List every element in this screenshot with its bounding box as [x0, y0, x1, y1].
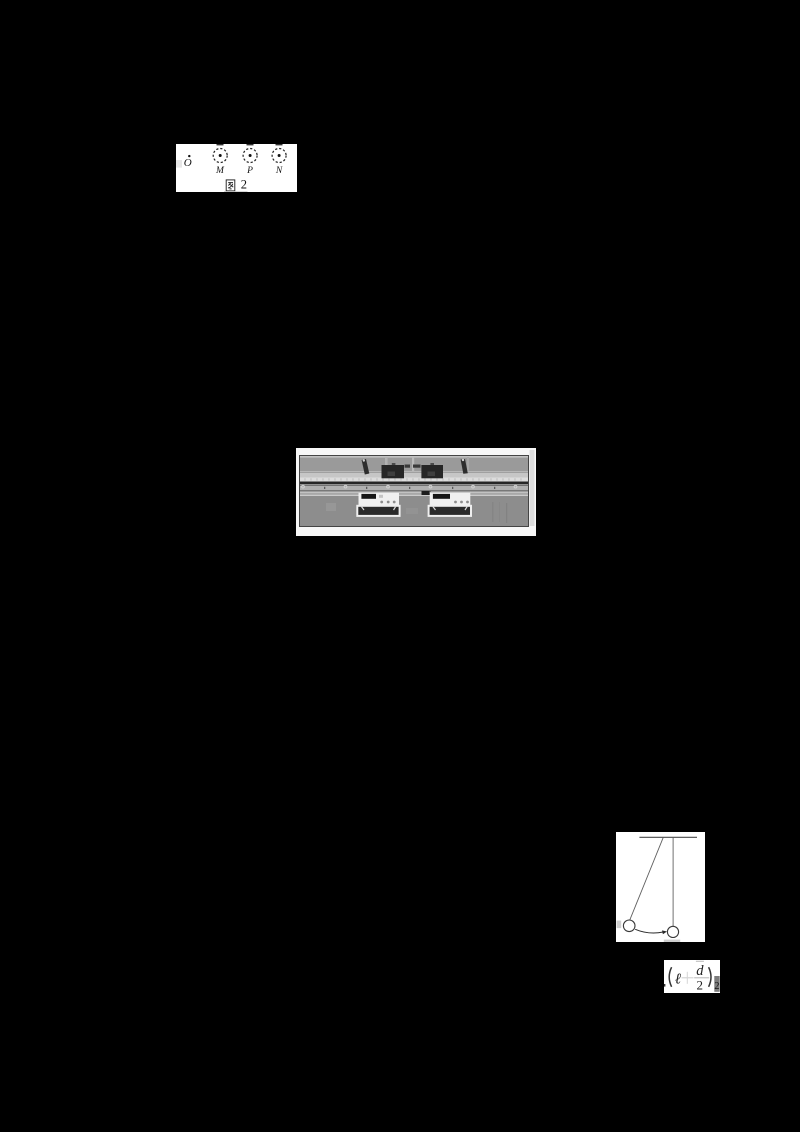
band below stripe: [300, 486, 528, 490]
white frame: [296, 448, 536, 536]
photo: air track with two photogate timers: [296, 448, 536, 536]
timer 1 buttons: [380, 501, 383, 504]
swing arrow: [635, 929, 667, 934]
timer 2 stand: [429, 506, 471, 516]
top edge dash above N: [276, 144, 283, 145]
field-out-of-page symbol N: [272, 149, 286, 163]
pendulum string vertical: [672, 837, 674, 926]
fraction bar: [694, 977, 709, 978]
svg-text:P: P: [246, 166, 253, 176]
cable block between timers: [422, 491, 432, 495]
ceiling line: [639, 836, 697, 838]
glider flag right: [430, 463, 434, 465]
right paren: [709, 967, 711, 987]
wall background: [300, 456, 528, 471]
scale number dashes: [324, 487, 495, 489]
timer 1 stand: [357, 506, 399, 516]
pendulum diagram: [616, 832, 705, 942]
right clamp post: [461, 459, 468, 474]
overbar above d: [696, 961, 704, 962]
formula (l + d/2): [664, 960, 720, 993]
gray block with dark 2: [714, 976, 719, 992]
knobs between flags: [405, 465, 410, 468]
left clamp post: [362, 459, 370, 475]
gray scan remnant left edge: [617, 921, 622, 929]
svg-text:2: 2: [697, 978, 704, 993]
gray scan remnant at left edge: [176, 160, 182, 168]
caption 图 (drawn glyph): [226, 180, 235, 191]
timer 2 display: [433, 494, 450, 499]
point O with dot: [184, 155, 192, 169]
svg-text:2: 2: [714, 981, 719, 992]
pendulum bob left: [623, 920, 635, 932]
photo border: [300, 456, 529, 527]
track dark stripe: [300, 482, 528, 485]
svg-text:d: d: [696, 963, 704, 979]
bench front: [300, 497, 528, 526]
field-out-of-page symbol M: [213, 149, 227, 163]
svg-text:O: O: [184, 157, 192, 169]
timer 1 body: [359, 492, 400, 507]
timer 1 display: [361, 494, 376, 499]
svg-text:ℓ: ℓ: [675, 972, 681, 988]
top edge dash above P: [247, 144, 254, 145]
svg-text:N: N: [275, 166, 283, 176]
gray scan remnant bottom: [664, 940, 680, 942]
pendulum bob right: [667, 926, 678, 937]
rings hanging below stripe: [302, 485, 517, 488]
pendulum string displaced: [630, 838, 664, 921]
gray strip right edge of frame: [530, 450, 535, 526]
plus faint: [682, 977, 694, 978]
timer 2 body: [430, 492, 471, 507]
glider flag left: [392, 463, 396, 465]
top edge dash above M: [217, 144, 224, 145]
seam lines on wall: [385, 457, 388, 471]
caption underline shading: [224, 190, 248, 193]
figure 图2: magnetic field points O M P N: [176, 144, 297, 192]
svg-text:M: M: [215, 166, 225, 176]
left paren: [669, 967, 671, 987]
svg-text:2: 2: [241, 178, 247, 192]
small dark mark left edge: [664, 984, 665, 987]
lower track bands: [300, 490, 528, 492]
track: thin dark top line: [300, 472, 528, 473]
track light band: [300, 473, 528, 478]
texture streaks lower right: [492, 502, 494, 522]
field-out-of-page symbol P: [243, 149, 257, 163]
timer 2 buttons: [454, 501, 457, 504]
ruler ticks: [305, 478, 521, 480]
